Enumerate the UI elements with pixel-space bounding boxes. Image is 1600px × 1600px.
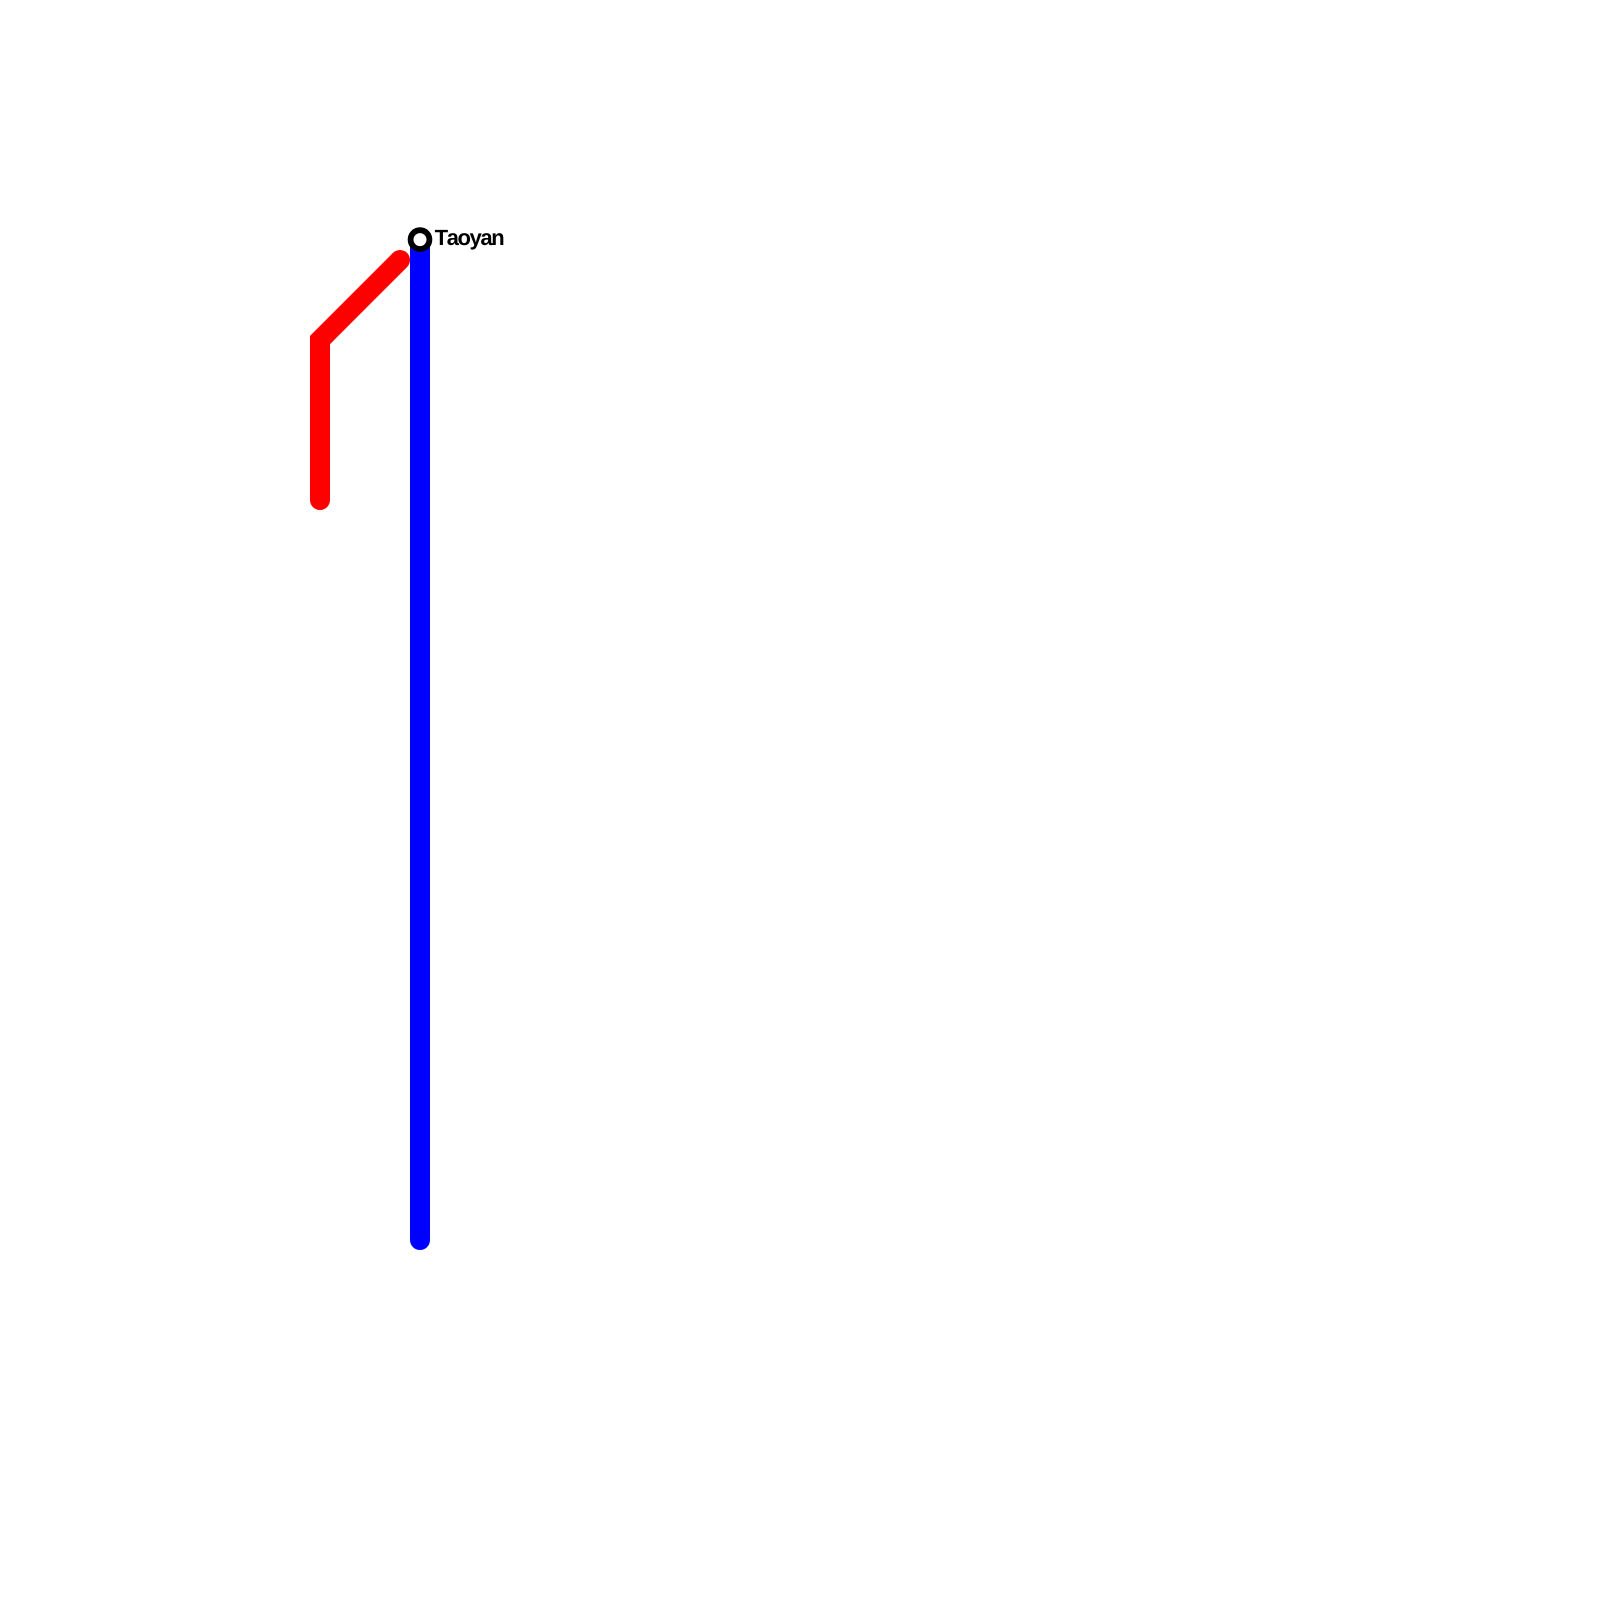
station label Taoyan: [435, 230, 503, 250]
blue line main vertical: [410, 240, 430, 1240]
red line branch (polyline with bend): [320, 260, 400, 500]
station marker Taoyan: [411, 230, 430, 249]
